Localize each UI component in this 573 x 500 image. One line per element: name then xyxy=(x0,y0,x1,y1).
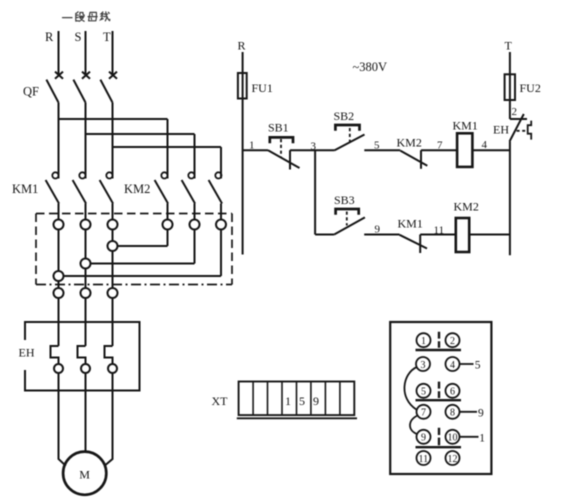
heater element EH pole1 xyxy=(51,346,59,364)
busbar label 一段母线 xyxy=(63,12,110,21)
motor M circle xyxy=(63,452,106,495)
heater element EH pole2 xyxy=(78,346,86,364)
svg-text:KM2: KM2 xyxy=(454,200,479,214)
heater element EH pole3 xyxy=(105,346,113,364)
separator bar group2 xyxy=(416,399,462,401)
svg-text:KM2: KM2 xyxy=(124,182,150,196)
wire control R vertical xyxy=(242,52,244,255)
terminal circle row1 col B xyxy=(81,220,91,230)
separator tick group1 xyxy=(438,332,440,348)
terminal circle bottom col B xyxy=(81,288,91,298)
svg-text:5: 5 xyxy=(475,360,481,372)
svg-text:KM1: KM1 xyxy=(453,119,478,133)
wire node2 segment xyxy=(509,100,511,119)
wire phase R drop to QF xyxy=(58,31,60,74)
svg-text:~380V: ~380V xyxy=(353,60,388,74)
terminal circle row1 col A xyxy=(54,220,64,230)
svg-text:7: 7 xyxy=(421,408,426,419)
heater terminal circle pole3 xyxy=(108,364,117,373)
terminal circle bottom col A xyxy=(54,288,64,298)
leader from terminal 4 xyxy=(460,363,474,365)
svg-text:5: 5 xyxy=(374,140,380,152)
svg-text:9: 9 xyxy=(313,394,319,408)
thermal relay EH NC contact xyxy=(510,114,532,142)
wire node3 vertical xyxy=(314,150,316,234)
pushbutton SB1 (NC) xyxy=(268,137,300,169)
terminal circle row1 col F xyxy=(216,220,226,230)
wire phase T drop to QF xyxy=(112,31,114,74)
svg-text:2: 2 xyxy=(512,106,518,118)
svg-text:9: 9 xyxy=(421,433,426,444)
contactor KM1 NC interlock contact xyxy=(400,235,428,254)
char 段 xyxy=(76,12,84,21)
dashed enclosure box xyxy=(36,214,232,285)
svg-text:5: 5 xyxy=(421,387,426,398)
panel box xyxy=(390,322,491,474)
svg-text:FU1: FU1 xyxy=(252,81,273,95)
wire rung2 node11 segment xyxy=(420,234,456,236)
svg-text:EH: EH xyxy=(19,346,35,360)
heater terminal circle pole1 xyxy=(54,364,63,373)
wire KM2 pole1 down xyxy=(167,204,169,247)
wire rung1 node7 segment xyxy=(421,149,457,151)
contactor KM1 main contact pole2 xyxy=(73,172,86,203)
wire rung1 node5 segment xyxy=(364,149,400,151)
svg-text:6: 6 xyxy=(450,387,455,398)
terminal 8 xyxy=(446,405,460,419)
junction circle crossover A xyxy=(54,271,64,281)
breaker QF blade pole3 xyxy=(100,80,112,103)
separator bar group3 xyxy=(416,446,462,448)
terminal 7 xyxy=(417,405,431,419)
svg-text:T: T xyxy=(103,30,111,44)
breaker QF blade pole1 xyxy=(46,80,58,103)
wire rung2 left xyxy=(315,234,334,236)
svg-text:11: 11 xyxy=(434,225,445,237)
svg-text:FU2: FU2 xyxy=(520,81,541,95)
svg-text:1: 1 xyxy=(249,140,255,152)
wire control T vertical upper xyxy=(509,52,511,74)
svg-text:9: 9 xyxy=(478,408,484,420)
terminal 6 xyxy=(446,384,460,398)
wire crossover C to KM2 pole1 xyxy=(113,245,168,247)
svg-text:4: 4 xyxy=(482,139,488,151)
wire crossover B to KM2 pole2 xyxy=(86,263,195,265)
svg-text:11: 11 xyxy=(419,454,429,465)
svg-text:1: 1 xyxy=(479,433,485,445)
svg-text:KM1: KM1 xyxy=(398,217,423,231)
coil KM2 xyxy=(456,218,469,252)
contactor KM1 main contact pole1 xyxy=(46,172,59,203)
svg-text:12: 12 xyxy=(448,454,458,465)
svg-text:T: T xyxy=(505,39,513,53)
svg-text:R: R xyxy=(238,39,246,53)
wire rung2 node9 segment xyxy=(364,234,399,236)
wire column A below QF xyxy=(58,103,60,179)
svg-text:KM2: KM2 xyxy=(397,136,422,150)
terminal 9 xyxy=(417,430,431,444)
wire branch A to KM2 pole1 xyxy=(59,119,168,179)
terminal 1 xyxy=(417,333,431,347)
jumper arc 3 to 7 xyxy=(404,367,416,410)
wire A to motor xyxy=(59,373,66,466)
contactor KM1 main contact pole3 xyxy=(100,172,113,203)
svg-text:3: 3 xyxy=(421,360,426,371)
wire rung1 node3 segment xyxy=(290,149,334,151)
terminal circle bottom col C xyxy=(108,288,118,298)
svg-text:9: 9 xyxy=(375,224,381,236)
svg-text:R: R xyxy=(45,30,54,44)
svg-text:8: 8 xyxy=(450,408,455,419)
svg-text:KM1: KM1 xyxy=(12,182,38,196)
contactor KM2 NC interlock contact xyxy=(400,150,427,169)
breaker QF contact x mark pole2 xyxy=(82,72,90,79)
wire column B below QF xyxy=(85,103,87,179)
terminal 5 xyxy=(417,384,431,398)
svg-text:EH: EH xyxy=(493,123,509,137)
terminal 2 xyxy=(446,333,460,347)
wire control right vertical xyxy=(509,142,511,256)
terminal circle row1 col C xyxy=(108,220,118,230)
wire KM2 pole2 down xyxy=(194,204,196,264)
separator tick group3 xyxy=(438,428,440,445)
svg-text:1: 1 xyxy=(285,394,291,408)
char 母 xyxy=(88,12,97,20)
char 线 xyxy=(101,12,110,21)
terminal strip XT body xyxy=(237,382,357,419)
jumper arc 7 to 9 xyxy=(410,416,418,435)
wire rung2 right xyxy=(469,234,510,236)
junction circle crossover B xyxy=(81,259,91,269)
fuse FU1 xyxy=(238,73,247,99)
leader from terminal 10 xyxy=(460,436,479,438)
thermal relay EH box xyxy=(25,322,140,391)
terminal 4 xyxy=(446,357,460,371)
wire branch B to KM2 pole2 xyxy=(86,134,195,179)
terminal circle row1 col D xyxy=(163,220,173,230)
svg-text:1: 1 xyxy=(421,336,426,347)
wire crossover A to KM2 pole3 xyxy=(59,275,222,277)
wire phase S drop to QF xyxy=(85,31,87,74)
fuse FU2 xyxy=(505,74,515,100)
junction circle crossover C xyxy=(108,241,118,251)
pushbutton SB3 (NO) xyxy=(334,209,365,235)
wire rung1 node4 segment xyxy=(472,149,510,151)
separator tick group2 xyxy=(438,382,440,398)
breaker QF contact x mark pole3 xyxy=(109,72,117,79)
breaker QF blade pole2 xyxy=(73,80,85,103)
wire C to motor xyxy=(105,373,113,466)
terminal 10 xyxy=(446,430,460,444)
svg-text:S: S xyxy=(75,30,82,44)
terminal 12 xyxy=(446,451,460,465)
separator bar group1 xyxy=(416,349,462,351)
wire B to motor xyxy=(85,373,87,452)
svg-text:XT: XT xyxy=(212,394,229,408)
char 一 xyxy=(63,17,73,19)
terminal circle row1 col E xyxy=(190,220,200,230)
svg-text:M: M xyxy=(79,468,90,482)
svg-text:4: 4 xyxy=(450,360,455,371)
wire column C below QF xyxy=(112,103,114,179)
coil KM1 xyxy=(457,133,472,167)
svg-text:7: 7 xyxy=(437,140,443,152)
terminal 11 xyxy=(417,451,431,465)
svg-text:QF: QF xyxy=(23,85,39,99)
svg-text:SB2: SB2 xyxy=(334,109,355,123)
wire column A to EH xyxy=(58,204,60,347)
leader from terminal 8 xyxy=(460,411,477,413)
pushbutton SB2 (NO) xyxy=(334,125,364,150)
wire rung1 left xyxy=(243,149,268,151)
breaker QF contact x mark pole1 xyxy=(55,72,63,79)
contactor KM2 main contact pole1 xyxy=(155,172,168,203)
svg-text:2: 2 xyxy=(450,336,455,347)
heater terminal circle pole2 xyxy=(81,364,90,373)
wire column B to EH xyxy=(85,204,87,347)
contactor KM2 main contact pole2 xyxy=(182,172,195,203)
svg-text:5: 5 xyxy=(299,394,305,408)
wire branch C to KM2 pole3 xyxy=(113,147,222,179)
wire column C to EH xyxy=(112,204,114,347)
wire KM2 pole3 down xyxy=(220,204,222,277)
svg-text:SB3: SB3 xyxy=(334,193,355,207)
svg-text:10: 10 xyxy=(448,433,458,444)
contactor KM2 main contact pole3 xyxy=(209,172,222,203)
terminal 3 xyxy=(416,357,430,371)
svg-text:SB1: SB1 xyxy=(268,121,289,135)
wire FU2 through xyxy=(509,74,511,100)
dashed enclosure box bottom edge xyxy=(36,284,232,286)
